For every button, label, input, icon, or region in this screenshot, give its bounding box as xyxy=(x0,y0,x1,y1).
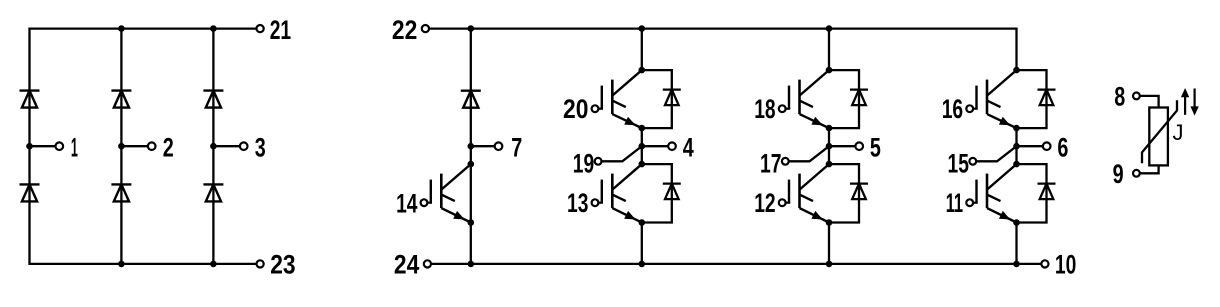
terminal 23 xyxy=(257,260,264,267)
svg-text:13: 13 xyxy=(567,188,588,218)
wire top rail (rectifier) xyxy=(30,27,257,29)
junction dot bottom rail leg 6 xyxy=(1013,261,1020,268)
transistor IGBT 16 xyxy=(986,80,989,115)
wire leg 4 lower xyxy=(641,223,643,264)
terminal 24 xyxy=(424,260,431,267)
terminal 2 xyxy=(148,142,156,150)
wire diode loop (D-bot) xyxy=(1017,164,1047,222)
diode D4 (lower, leg 1) xyxy=(20,183,40,185)
junction dots IGBT 13 xyxy=(639,161,646,168)
wire aux emitter 15 xyxy=(976,146,1016,161)
terminal 15 (aux emitter) xyxy=(969,158,976,165)
svg-text:5: 5 xyxy=(870,133,881,163)
diode D6 (lower, leg 3) xyxy=(203,183,223,185)
junction dot bottom rail leg 4 xyxy=(639,261,646,268)
svg-text:22: 22 xyxy=(392,15,417,45)
terminal 11 (gate) xyxy=(966,199,973,206)
terminal 13 (gate) xyxy=(592,199,599,206)
junction dot top rail leg 5 xyxy=(826,25,833,32)
terminal 5 xyxy=(855,142,863,150)
svg-text:24: 24 xyxy=(394,250,419,280)
node 4 stub xyxy=(642,145,672,147)
wire leg 4 upper xyxy=(641,29,643,71)
junction dots bottom rail rectifier xyxy=(118,261,125,268)
diode D-top (antiparallel) xyxy=(663,88,681,90)
terminal 4 xyxy=(668,142,676,150)
transistor IGBT 18 xyxy=(798,80,801,115)
wire aux emitter 17 xyxy=(789,146,829,161)
wire diode loop (D-top) xyxy=(1017,70,1047,128)
wire diode loop (D-top) xyxy=(829,70,859,128)
terminal 6 xyxy=(1043,142,1051,150)
svg-text:4: 4 xyxy=(683,133,694,163)
junction dots top rail rectifier xyxy=(118,25,125,32)
diode D-top (antiparallel) xyxy=(850,88,868,90)
svg-text:23: 23 xyxy=(270,250,295,280)
terminal 16 (gate) xyxy=(966,105,973,112)
transistor IGBT 13 xyxy=(611,174,614,209)
svg-text:1: 1 xyxy=(71,133,78,163)
thermistor R (NTC) body xyxy=(1149,108,1168,166)
svg-text:21: 21 xyxy=(270,15,291,45)
transistor IGBT 11 xyxy=(986,174,989,209)
junction dots IGBT 11 xyxy=(1013,161,1020,168)
wire diode loop (D-bot) xyxy=(642,164,672,222)
node 5 stub xyxy=(829,145,859,147)
svg-text:15: 15 xyxy=(948,148,969,178)
diode D-top (antiparallel) xyxy=(1038,88,1056,90)
transistor IGBT 12 xyxy=(798,174,801,209)
terminal 17 (aux emitter) xyxy=(782,158,789,165)
wire leg 5 lower xyxy=(828,223,830,264)
temperature arrow up xyxy=(1184,96,1186,115)
temperature arrow down xyxy=(1193,89,1195,108)
svg-text:16: 16 xyxy=(942,94,963,124)
junction dot top rail leg 4 xyxy=(639,25,646,32)
wire thermistor bottom xyxy=(1140,165,1159,174)
junction dot chopper bottom xyxy=(468,261,475,268)
svg-text:19: 19 xyxy=(573,148,594,178)
node 7 stub xyxy=(471,145,499,147)
diode D7 (brake freewheel) xyxy=(461,89,481,91)
wire leg 5 middle xyxy=(828,128,830,164)
diode D3 (upper, leg 3) xyxy=(203,89,223,91)
svg-text:3: 3 xyxy=(255,133,266,163)
terminal 7 xyxy=(495,142,503,150)
wire top rail (DC+) xyxy=(429,27,1018,29)
wire leg 5 upper xyxy=(828,29,830,71)
junction dot chopper top xyxy=(468,25,475,32)
svg-text:2: 2 xyxy=(163,133,174,163)
junction dots IGBT 12 xyxy=(826,161,833,168)
svg-text:12: 12 xyxy=(754,188,775,218)
node AC3 stub xyxy=(213,145,243,147)
wire diode loop (D-bot) xyxy=(829,164,859,222)
terminal 21 xyxy=(257,25,264,32)
diode D-bot (antiparallel) xyxy=(1038,182,1056,184)
wire leg 4 middle xyxy=(641,128,643,164)
wire bottom rail (rectifier) xyxy=(30,263,257,265)
transistor IGBT 20 xyxy=(611,80,614,115)
wire rectifier leg 1 xyxy=(28,28,30,266)
node 6 stub xyxy=(1017,145,1047,147)
wire rectifier leg 2 xyxy=(120,29,122,264)
terminal 19 (aux emitter) xyxy=(595,158,602,165)
terminal 20 (gate) xyxy=(592,105,599,112)
terminal 10 xyxy=(1041,260,1048,267)
svg-text:6: 6 xyxy=(1057,133,1068,163)
terminal 3 xyxy=(240,142,248,150)
svg-text:17: 17 xyxy=(760,148,781,178)
svg-text:10: 10 xyxy=(1055,250,1076,280)
diode D-bot (antiparallel) xyxy=(663,182,681,184)
wire aux emitter 19 xyxy=(601,146,641,161)
wire thermistor top xyxy=(1140,96,1159,109)
diode D-bot (antiparallel) xyxy=(850,182,868,184)
junction dots IGBT 18 xyxy=(826,67,833,74)
thermistor diagonal xyxy=(1142,100,1177,163)
junction dots IGBT 20 xyxy=(639,67,646,74)
wire diode loop (D-top) xyxy=(642,70,672,128)
diode D1 (upper, leg 1) xyxy=(20,89,40,91)
terminal 8 xyxy=(1133,93,1140,100)
terminal 12 (gate) xyxy=(779,199,786,206)
wire chopper leg xyxy=(470,29,472,264)
svg-text:18: 18 xyxy=(754,94,775,124)
diode D2 (upper, leg 2) xyxy=(111,89,131,91)
terminal 14 (gate) xyxy=(421,199,428,206)
junction dot bottom rail leg 5 xyxy=(826,261,833,268)
terminal 9 xyxy=(1133,170,1140,177)
terminal 22 xyxy=(422,25,429,32)
svg-text:11: 11 xyxy=(946,188,963,218)
svg-text:J: J xyxy=(1173,120,1184,145)
svg-text:8: 8 xyxy=(1114,81,1125,111)
junction dots IGBT 16 xyxy=(1013,67,1020,74)
wire leg 6 middle xyxy=(1015,128,1017,164)
wire bottom rail (DC-) xyxy=(431,263,1041,265)
svg-text:7: 7 xyxy=(511,133,522,163)
terminal 18 (gate) xyxy=(779,105,786,112)
wire rectifier leg 3 xyxy=(212,29,214,264)
terminal 1 xyxy=(56,142,64,150)
node AC2 stub xyxy=(121,145,151,147)
svg-text:14: 14 xyxy=(396,189,417,219)
wire leg 6 lower xyxy=(1015,223,1017,264)
diode D5 (lower, leg 2) xyxy=(111,183,131,185)
svg-text:9: 9 xyxy=(1113,159,1124,189)
node AC1 stub xyxy=(30,145,60,147)
svg-text:20: 20 xyxy=(563,94,588,124)
transistor IGBT 14 (brake) xyxy=(440,174,443,209)
wire leg 6 upper xyxy=(1015,29,1017,71)
